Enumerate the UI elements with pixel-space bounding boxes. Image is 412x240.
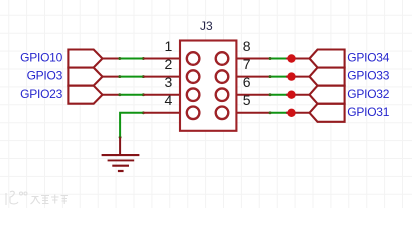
pin 4 wire (143, 112, 180, 114)
wire net GPIO23 (120, 94, 144, 96)
pin circle 3 (187, 88, 200, 101)
svg-text:GPIO33: GPIO33 (347, 69, 389, 83)
pin 5 wire (236, 112, 270, 114)
watermark logo (6, 191, 68, 205)
pin circle 8 (216, 52, 229, 65)
pin 6 wire (236, 94, 270, 96)
net flag GPIO32 (310, 86, 345, 104)
wire: flag GPIO32 lead (286, 94, 310, 96)
pin 3 wire (143, 94, 180, 96)
net flag GPIO23 (68, 86, 102, 104)
wire: flag GPIO3 lead (103, 76, 121, 78)
svg-text:2: 2 (165, 56, 173, 72)
wire net GPIO33 (270, 76, 288, 78)
pin 1 wire (143, 58, 180, 60)
net flag GPIO33 (310, 68, 345, 86)
connector J3 body (180, 41, 236, 131)
net flag GPIO31 (310, 104, 345, 122)
wire: flag GPIO31 lead (286, 112, 310, 114)
net flag GPIO34 (310, 50, 345, 68)
svg-text:6: 6 (243, 74, 251, 90)
pin 2 wire (143, 76, 180, 78)
svg-text:8: 8 (243, 38, 251, 54)
svg-text:J3: J3 (200, 19, 213, 33)
svg-text:3: 3 (165, 74, 173, 90)
junction dot pin 8 (287, 54, 295, 62)
wire: flag GPIO33 lead (286, 76, 310, 78)
pin circle 4 (187, 107, 200, 120)
svg-text:GPIO3: GPIO3 (27, 69, 63, 83)
svg-text:GPIO10: GPIO10 (20, 51, 62, 65)
junction dot pin 5 (287, 109, 295, 117)
pin circle 5 (216, 107, 229, 120)
svg-text:5: 5 (243, 92, 251, 108)
wire net GPIO32 (270, 94, 288, 96)
wire: flag GPIO23 lead (103, 94, 121, 96)
wire net GPIO3 (120, 76, 144, 78)
net flag GPIO10 (68, 50, 102, 68)
svg-text:7: 7 (243, 56, 251, 72)
pin circle 6 (216, 88, 229, 101)
wire net GPIO34 (270, 58, 288, 60)
ground symbol (102, 137, 140, 171)
junction dot pin 6 (287, 91, 295, 99)
svg-text:4: 4 (165, 92, 173, 108)
junction dot pin 7 (287, 72, 295, 80)
pin circle 7 (216, 70, 229, 83)
svg-text:GPIO31: GPIO31 (347, 105, 389, 119)
pin 7 wire (236, 76, 270, 78)
pin 8 wire (236, 58, 270, 60)
wire: flag GPIO10 lead (103, 58, 121, 60)
wire net GND (120, 113, 143, 138)
pin circle 2 (187, 70, 200, 83)
net flag GPIO3 (68, 68, 102, 86)
svg-text:GPIO32: GPIO32 (347, 87, 389, 101)
svg-text:GPIO34: GPIO34 (347, 51, 389, 65)
svg-text:1: 1 (165, 38, 173, 54)
pin circle 1 (187, 52, 200, 65)
wire net GPIO31 (270, 112, 288, 114)
wire net GPIO10 (120, 58, 144, 60)
wire: flag GPIO34 lead (286, 58, 310, 60)
svg-text:GPIO23: GPIO23 (20, 87, 62, 101)
